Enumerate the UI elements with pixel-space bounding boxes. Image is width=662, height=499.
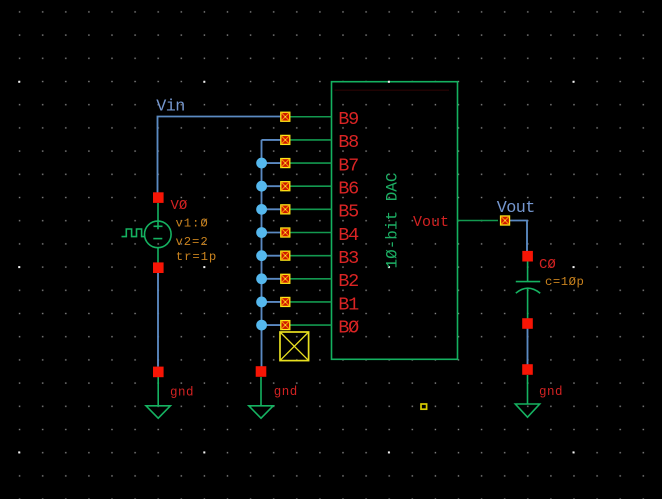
svg-text:gnd: gnd [170, 385, 194, 399]
svg-text:CØ: CØ [539, 257, 556, 273]
svg-text:B9: B9 [338, 109, 358, 130]
svg-text:B4: B4 [338, 225, 359, 246]
svg-text:1Ø-bit DAC: 1Ø-bit DAC [384, 172, 402, 268]
svg-text:tr=1p: tr=1p [176, 250, 217, 264]
svg-text:B7: B7 [338, 155, 358, 176]
svg-text:B5: B5 [338, 202, 358, 223]
svg-text:Vout: Vout [413, 214, 449, 231]
svg-text:gnd: gnd [539, 385, 563, 399]
svg-text:Vin: Vin [156, 98, 184, 117]
svg-text:Vout: Vout [497, 199, 535, 218]
svg-text:v1:Ø: v1:Ø [176, 216, 209, 230]
svg-text:B1: B1 [338, 294, 359, 315]
svg-text:gnd: gnd [274, 385, 298, 399]
svg-text:BØ: BØ [338, 317, 359, 338]
svg-text:VØ: VØ [171, 198, 188, 214]
svg-text:v2=2: v2=2 [176, 235, 209, 249]
svg-text:B3: B3 [338, 248, 358, 269]
svg-text:B6: B6 [338, 179, 358, 200]
svg-text:B2: B2 [338, 271, 358, 292]
svg-text:B8: B8 [338, 132, 358, 153]
svg-text:c=1Øp: c=1Øp [545, 275, 584, 289]
